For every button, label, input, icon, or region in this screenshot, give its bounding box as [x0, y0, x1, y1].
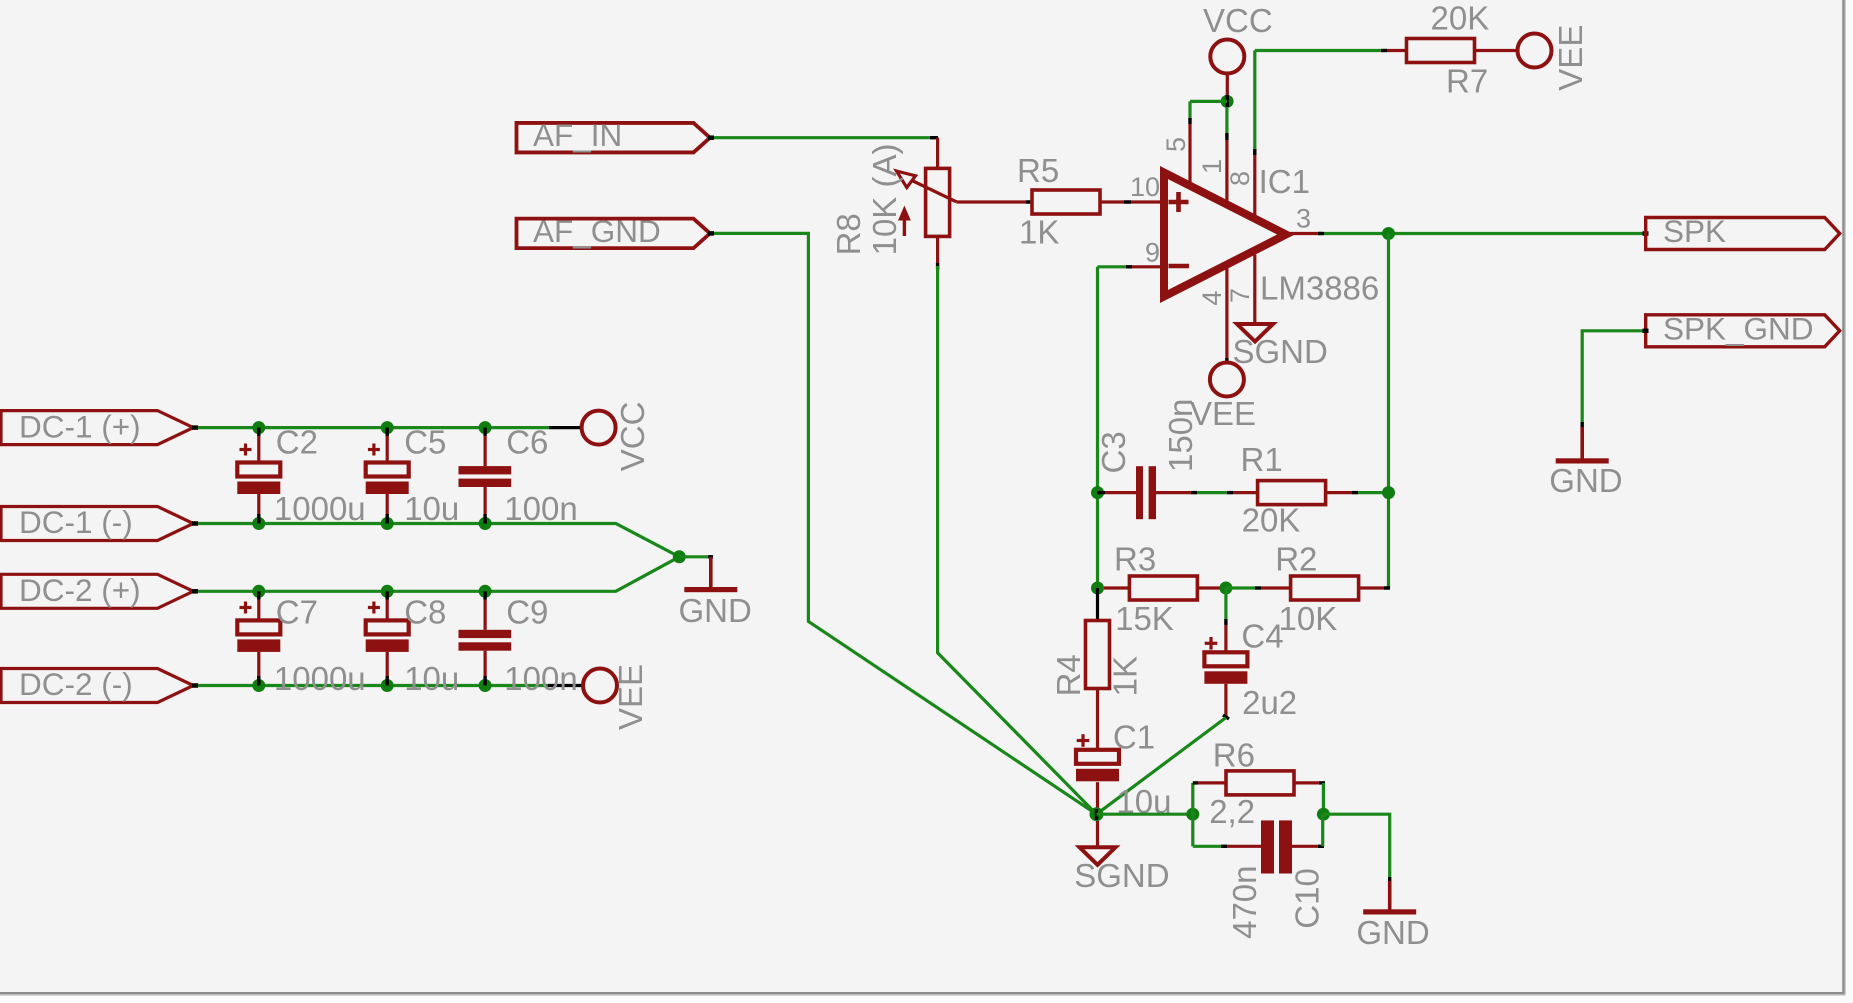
svg-text:DC-2 (+): DC-2 (+): [19, 572, 141, 608]
svg-text:1: 1: [1197, 159, 1227, 174]
pin 3 output stub: [1286, 232, 1322, 235]
svg-text:10K (A): 10K (A): [866, 144, 903, 256]
wire VCC to junction: [1226, 74, 1229, 97]
svg-text:R8: R8: [830, 213, 867, 255]
svg-text:4: 4: [1197, 291, 1227, 306]
plus mark C5: [368, 448, 380, 451]
supply VCC circle: [1210, 40, 1244, 74]
svg-text:C4: C4: [1241, 618, 1283, 655]
wire C3 to R1: [1197, 491, 1228, 494]
supply VEE circle DC: [583, 669, 617, 703]
svg-text:GND: GND: [1356, 914, 1429, 951]
wire SPK_GND to GND: [1582, 331, 1646, 423]
svg-text:R1: R1: [1241, 441, 1283, 478]
svg-text:10: 10: [1130, 172, 1160, 202]
plus mark C2: [240, 448, 252, 451]
capacitor C2: [257, 428, 260, 436]
svg-text:GND: GND: [1549, 462, 1622, 499]
svg-text:C1: C1: [1113, 719, 1155, 756]
wire pin 8 to R7 net: [1253, 51, 1256, 151]
svg-text:R7: R7: [1446, 63, 1488, 100]
junction C3 node: [1091, 486, 1104, 499]
svg-text:10K: 10K: [1279, 600, 1338, 637]
wire R5 to IC1 pin 10: [1100, 200, 1161, 203]
svg-text:VCC: VCC: [1203, 2, 1273, 39]
wire R2 to feedback: [1359, 586, 1389, 589]
wire to R2: [1226, 586, 1256, 589]
junction R6 C10 left: [1186, 808, 1199, 821]
potentiometer R8 adjust arrow: [898, 206, 911, 221]
wire DC-1 plus rail: [195, 426, 549, 429]
svg-text:15K: 15K: [1115, 600, 1174, 637]
junction dots DC rails: [252, 421, 265, 434]
junction R6 C10 right: [1317, 808, 1330, 821]
svg-text:R6: R6: [1213, 737, 1255, 774]
net flag DC-1 (+): [1, 411, 193, 445]
svg-text:100n: 100n: [504, 660, 577, 697]
svg-text:3: 3: [1296, 204, 1311, 234]
svg-text:SPK_GND: SPK_GND: [1663, 310, 1814, 346]
pin 1 stub: [1225, 107, 1228, 137]
svg-text:1K: 1K: [1019, 214, 1059, 251]
junction R3 R2 C4 node: [1219, 582, 1232, 595]
potentiometer R8 wiper arrow: [913, 181, 956, 202]
svg-text:20K: 20K: [1431, 0, 1490, 37]
svg-text:SGND: SGND: [1233, 333, 1328, 370]
wire junction to pin 5: [1190, 100, 1227, 103]
wire R4 to C1: [1096, 689, 1099, 750]
resistor R4: [1086, 621, 1110, 689]
wire C4 bottom to SGND star: [1224, 684, 1227, 717]
plus mark C1: [1077, 739, 1090, 742]
svg-text:9: 9: [1145, 238, 1160, 268]
svg-text:C6: C6: [506, 424, 548, 461]
svg-text:R5: R5: [1017, 152, 1059, 189]
svg-text:10u: 10u: [404, 660, 459, 697]
wire R7 net horizontal: [1255, 49, 1381, 52]
svg-text:7: 7: [1225, 288, 1255, 303]
net flag DC-2 (-): [1, 669, 193, 703]
supply VEE circle top right: [1518, 34, 1552, 68]
wire node to GND: [1323, 814, 1389, 878]
capacitor C9: [483, 591, 486, 599]
svg-text:100n: 100n: [504, 490, 577, 527]
wire C1 bottom through star to SGND: [1096, 782, 1099, 847]
plus mark C7: [240, 606, 252, 609]
wire right rail C10: [1321, 814, 1324, 846]
wire pin 9 net: [1098, 265, 1127, 268]
wire R1 to feedback: [1326, 491, 1353, 494]
svg-text:C7: C7: [276, 594, 318, 631]
wire R7 to VEE: [1475, 49, 1518, 52]
supply VEE circle at pin 4: [1210, 363, 1244, 397]
svg-text:1000u: 1000u: [274, 490, 366, 527]
net flag AF_IN: [517, 123, 711, 153]
resistor R5: [1032, 190, 1100, 214]
wire R8 bottom to SGND star: [936, 237, 939, 264]
capacitor C1: [1076, 750, 1119, 764]
svg-text:GND: GND: [679, 592, 752, 629]
wire star to R6 C10 node: [1097, 813, 1193, 816]
svg-text:AF_GND: AF_GND: [533, 213, 661, 249]
wire DC-2 plus rail: [195, 557, 680, 592]
net flag SPK: [1646, 218, 1840, 250]
SGND arrow at pin 7: [1237, 324, 1273, 342]
svg-text:C9: C9: [506, 594, 548, 631]
svg-text:C5: C5: [404, 424, 446, 461]
svg-text:1K: 1K: [1107, 656, 1144, 696]
svg-text:VEE: VEE: [1552, 25, 1589, 91]
capacitor C6: [483, 428, 486, 436]
net flag DC-2 (+): [1, 574, 193, 608]
wire output to SPK: [1324, 232, 1646, 235]
junction feedback R1: [1382, 486, 1395, 499]
net flag SPK_GND: [1646, 315, 1840, 347]
wire AF_GND to SGND star: [710, 233, 1097, 814]
capacitor C4: [1204, 652, 1247, 666]
svg-text:VEE: VEE: [1190, 395, 1256, 432]
capacitor C5: [386, 428, 389, 436]
wire junction to GND DC: [679, 555, 709, 558]
svg-text:LM3886: LM3886: [1260, 270, 1379, 307]
svg-text:AF_IN: AF_IN: [533, 117, 622, 153]
plus mark C8: [368, 606, 380, 609]
potentiometer R8 body: [926, 168, 950, 236]
resistor R1: [1258, 481, 1326, 505]
junction VCC pins 1 5: [1221, 95, 1234, 108]
svg-text:SPK: SPK: [1663, 213, 1726, 249]
junction R3 node: [1091, 582, 1104, 595]
capacitor C8: [386, 591, 389, 599]
svg-text:C8: C8: [404, 594, 446, 631]
ground GND DC: [709, 557, 713, 590]
svg-text:R3: R3: [1114, 541, 1156, 578]
resistor R7: [1407, 39, 1475, 63]
pin 8 stub: [1253, 155, 1256, 215]
junction GND DC: [673, 550, 686, 563]
wire right rail R6: [1322, 783, 1325, 814]
svg-text:DC-1 (-): DC-1 (-): [19, 504, 133, 540]
svg-text:2,2: 2,2: [1209, 793, 1255, 830]
wire AF_IN to R8 top: [710, 136, 930, 139]
svg-text:IC1: IC1: [1259, 163, 1310, 200]
net flag DC-1 (-): [1, 507, 193, 541]
supply VCC circle DC: [582, 411, 616, 445]
SGND arrow at star: [1080, 847, 1116, 865]
svg-text:470n: 470n: [1226, 865, 1263, 938]
svg-text:C2: C2: [276, 424, 318, 461]
svg-text:8: 8: [1225, 171, 1255, 186]
svg-text:5: 5: [1161, 137, 1191, 152]
op-amp plus input mark: [1169, 200, 1189, 205]
svg-text:2u2: 2u2: [1242, 684, 1297, 721]
svg-text:1000u: 1000u: [274, 660, 366, 697]
svg-text:10u: 10u: [404, 490, 459, 527]
capacitor C7: [257, 591, 260, 599]
junction SGND star: [1090, 807, 1104, 821]
wire left rail R6: [1191, 783, 1194, 814]
wire C4 top: [1224, 588, 1227, 620]
junction output node: [1382, 227, 1395, 240]
ground GND at SPK_GND: [1580, 427, 1584, 461]
svg-text:VEE: VEE: [612, 664, 649, 730]
svg-text:R4: R4: [1050, 654, 1087, 696]
svg-text:C3: C3: [1095, 431, 1132, 473]
op-amp IC1 triangle: [1164, 173, 1286, 297]
wire R8 wiper to R5: [956, 200, 1030, 203]
pin 4 stub to VEE: [1225, 269, 1228, 360]
pin 5 stub: [1188, 124, 1191, 184]
wire DC-2 minus rail: [195, 684, 548, 687]
svg-text:SGND: SGND: [1074, 857, 1169, 894]
net flag AF_GND: [517, 219, 711, 249]
wire DC-1 minus rail: [195, 524, 680, 557]
capacitor C10: [1227, 845, 1261, 848]
wire feedback vertical: [1387, 234, 1390, 589]
wire R3 node to R4 top: [1096, 588, 1099, 621]
svg-text:DC-2 (-): DC-2 (-): [19, 666, 133, 702]
resistor R2: [1291, 576, 1359, 600]
resistor R3: [1104, 586, 1129, 589]
wire left rail C10: [1191, 814, 1194, 846]
pin 7 stub: [1253, 255, 1256, 324]
svg-text:150n: 150n: [1162, 399, 1199, 472]
svg-text:DC-1 (+): DC-1 (+): [19, 408, 141, 444]
svg-text:C10: C10: [1289, 868, 1326, 929]
ground GND bottom: [1388, 881, 1392, 912]
op-amp minus input mark: [1169, 264, 1190, 269]
capacitor C3: [1105, 491, 1136, 494]
svg-text:VCC: VCC: [614, 402, 651, 472]
svg-text:R2: R2: [1275, 541, 1317, 578]
resistor R6: [1198, 781, 1226, 784]
plus mark C4: [1205, 642, 1218, 645]
svg-text:20K: 20K: [1242, 502, 1301, 539]
